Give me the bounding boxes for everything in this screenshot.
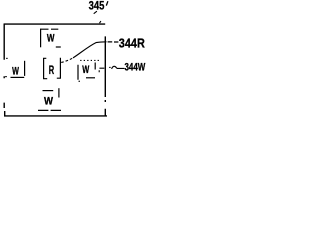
label 345' xyxy=(89,0,108,13)
wavy leader and label 344W xyxy=(109,66,124,69)
dashed box W (left) xyxy=(5,58,24,77)
leader dashes and label 344R xyxy=(108,41,119,43)
dashed box R (center) xyxy=(44,58,61,79)
main box 345 right edge xyxy=(104,36,106,116)
dashed box W (right) xyxy=(78,60,99,82)
svg-text:W: W xyxy=(47,32,55,44)
leader hook at right W box xyxy=(99,68,104,72)
svg-text:W: W xyxy=(44,96,54,108)
leader from 345' to box top xyxy=(94,11,101,23)
dashed box W (top center) xyxy=(41,29,61,48)
svg-text:344R: 344R xyxy=(119,37,145,51)
svg-text:W: W xyxy=(82,64,89,76)
svg-text:W: W xyxy=(12,65,19,77)
dashed box W (bottom) xyxy=(38,88,61,110)
svg-text:344W: 344W xyxy=(125,62,146,74)
arc leader to 344R (dashed start) xyxy=(61,58,73,63)
svg-text:R: R xyxy=(49,63,55,77)
svg-text:345: 345 xyxy=(89,0,105,13)
main box 345 bottom edge xyxy=(4,115,107,117)
arc leader to 344R (solid part) xyxy=(73,42,107,58)
main box 345 top edge xyxy=(4,23,106,25)
main box 345 left edge xyxy=(3,24,6,116)
